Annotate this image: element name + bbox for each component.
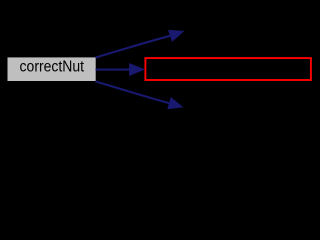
svg-text:correctNut: correctNut <box>20 59 85 76</box>
node truncated (red box) <box>145 58 311 80</box>
edge arrow top <box>96 30 184 57</box>
edge arrow bottom <box>96 81 183 108</box>
node correctNut (current function, grey box) <box>8 57 96 81</box>
edge arrow middle <box>96 64 144 75</box>
